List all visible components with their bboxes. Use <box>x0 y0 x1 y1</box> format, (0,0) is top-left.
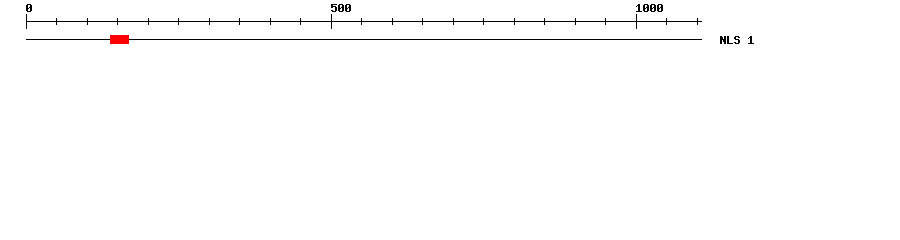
ruler line <box>26 21 702 22</box>
minor tick 700 <box>453 18 454 25</box>
sequence line <box>26 39 702 40</box>
feature box NLS 1 (red) <box>110 35 129 44</box>
minor tick 900 <box>575 18 576 25</box>
minor tick 100 <box>87 18 88 25</box>
minor tick 750 <box>483 18 484 25</box>
minor tick 950 <box>605 18 606 25</box>
minor tick 550 <box>361 18 362 25</box>
minor tick 400 <box>270 18 271 25</box>
minor tick 650 <box>422 18 423 25</box>
minor tick 1100 <box>697 18 698 25</box>
minor tick 150 <box>117 18 118 25</box>
background <box>0 0 900 58</box>
minor tick 450 <box>300 18 301 25</box>
ruler label 0 <box>26 4 32 12</box>
minor tick 50 <box>56 18 57 25</box>
major tick 500 <box>331 14 332 29</box>
minor tick 600 <box>392 18 393 25</box>
minor tick 1050 <box>666 18 667 25</box>
minor tick 250 <box>178 18 179 25</box>
feature label NLS 1 <box>720 36 754 44</box>
minor tick 300 <box>209 18 210 25</box>
major tick 1000 <box>636 14 637 29</box>
minor tick 800 <box>514 18 515 25</box>
ruler label 500 <box>331 4 351 12</box>
major tick 0 <box>26 14 27 29</box>
minor tick 350 <box>239 18 240 25</box>
ruler label 1000 <box>636 4 663 12</box>
minor tick 850 <box>544 18 545 25</box>
minor tick 200 <box>148 18 149 25</box>
